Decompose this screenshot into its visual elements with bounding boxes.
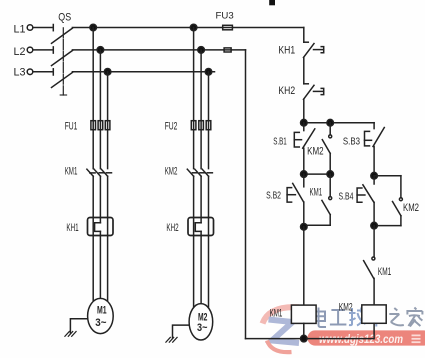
node A2 junction — [327, 119, 334, 126]
svg-text:KM1: KM1 — [270, 308, 283, 320]
node M2-W junction — [205, 69, 212, 76]
watermark char shu — [368, 308, 385, 327]
node A junction — [301, 119, 308, 126]
pushbutton SB2 (NO start M1) — [287, 174, 304, 227]
contactor KM1 main contact pole 3 — [101, 169, 111, 176]
svg-text:FU1: FU1 — [65, 121, 78, 133]
bottom rail — [246, 338, 374, 340]
wire M1 phase U drop — [92, 28, 94, 121]
switch QS pole 1 blade — [52, 28, 73, 43]
svg-text:KM2: KM2 — [403, 202, 419, 214]
ground wire M1 — [70, 319, 87, 333]
terminal L2 — [27, 47, 33, 53]
svg-text:FU3: FU3 — [216, 10, 234, 21]
fuse FU2 pole 1 — [191, 121, 196, 130]
thermal contact KH2 — [304, 84, 324, 100]
svg-text:www.dgjs123.com: www.dgjs123.com — [319, 334, 403, 346]
wire KH1 to motor M1 — [93, 236, 107, 303]
watermark logo blue Z — [269, 320, 300, 344]
node B2 junction — [327, 171, 334, 178]
node C junction — [301, 224, 308, 231]
node M1-W junction — [104, 69, 111, 76]
wire node D rail — [374, 175, 401, 177]
contact KM2 NO (parallel with SB1) — [322, 123, 331, 174]
watermark char ji — [349, 308, 366, 326]
wire KH1 box pass-through — [93, 218, 107, 236]
motor M2 — [189, 304, 213, 340]
svg-text:FU2: FU2 — [165, 121, 178, 133]
svg-text:KH1: KH1 — [278, 45, 295, 57]
terminal L3 — [27, 69, 33, 75]
svg-text:KM1: KM1 — [65, 166, 78, 178]
svg-text:KH2: KH2 — [278, 85, 295, 97]
contactor KM1 main contact pole 1 — [87, 169, 95, 176]
watermark red url bar — [308, 330, 425, 345]
coil KM1 — [291, 305, 316, 323]
switch QS pole 2 blade — [52, 51, 73, 66]
svg-text:QS: QS — [58, 12, 71, 24]
wire L1 to QS — [33, 27, 52, 29]
watermark char dian — [312, 308, 326, 328]
svg-text:KM1: KM1 — [310, 186, 323, 198]
wire M2 phase W drop — [208, 72, 210, 121]
fuse FU1 pole 1 — [91, 121, 96, 130]
contactor KM1 main contact pole 2 — [94, 169, 104, 176]
wire coil KM1 to bottom rail — [303, 323, 305, 338]
fuse FU1 pole 3 — [105, 121, 110, 130]
wire KH2 to node A — [303, 99, 305, 122]
wire KM1 contacts to KH1 — [93, 176, 107, 223]
svg-text:L3: L3 — [14, 67, 26, 79]
contactor KM2 main contact pole 1 — [187, 169, 197, 176]
switch QS pole 3 blade — [52, 73, 73, 88]
pushbutton SB1 (NC stop) — [294, 123, 315, 174]
ground M1 — [65, 332, 76, 337]
svg-text:KM2: KM2 — [165, 166, 178, 178]
svg-text:L2: L2 — [14, 46, 26, 58]
switch QS pole 3 contact — [52, 69, 54, 75]
thermal relay KH2 heater element jog — [195, 223, 201, 232]
ground wire M2 — [173, 325, 190, 338]
wire L2 to QS — [33, 49, 52, 51]
node M1-U junction — [90, 24, 97, 31]
wire L2 rail — [72, 49, 245, 51]
wire L3 to QS — [33, 71, 52, 73]
pushbutton SB4 (NO start M2) — [357, 176, 374, 226]
fuse FU3 pole b — [224, 48, 231, 52]
wire node A rail — [304, 122, 374, 124]
node rail junction — [301, 335, 308, 342]
watermark char jia — [406, 308, 422, 327]
svg-text:M1: M1 — [97, 305, 107, 317]
wire M1 phase V drop — [99, 50, 101, 121]
wire M2 phase U drop — [193, 28, 195, 121]
wire KH2 to motor M2 — [194, 236, 209, 308]
node M2-V junction — [198, 47, 205, 54]
contactor KM2 main contact pole 2 — [195, 169, 205, 176]
thermal relay KH2 heater box — [188, 218, 214, 236]
wire FU1 to KM1 contacts — [93, 130, 107, 169]
watermark char zhi — [389, 308, 404, 325]
thermal relay KH1 heater box — [88, 218, 114, 236]
coil KM2 — [362, 305, 386, 323]
svg-text:S.B1: S.B1 — [273, 136, 287, 147]
wire node B rail — [304, 173, 330, 175]
svg-text:3~: 3~ — [95, 317, 107, 329]
contactor KM2 main contact pole 3 — [202, 169, 212, 176]
watermark pink swoosh — [263, 307, 300, 323]
svg-text:S.B3: S.B3 — [343, 136, 360, 147]
node M2-U junction — [190, 24, 197, 31]
wire control left riser from L2 — [245, 50, 247, 339]
svg-text:L1: L1 — [14, 23, 26, 35]
contact KM1 NO sequence — [364, 226, 375, 305]
wire control right feed from L1 — [303, 28, 305, 43]
fuse FU2 pole 3 — [206, 121, 211, 130]
thermal contact KH1 — [304, 42, 324, 57]
pushbutton SB3 (NC stop M2) — [365, 123, 385, 176]
thermal relay KH1 heater element jog — [95, 223, 101, 232]
wire FU2 to KM2 contacts — [194, 130, 209, 169]
svg-text:KH1: KH1 — [66, 222, 78, 234]
switch QS pole 2 contact — [52, 47, 54, 53]
svg-text:KM1: KM1 — [378, 266, 391, 278]
node B junction — [301, 171, 308, 178]
svg-text:KM2: KM2 — [307, 146, 324, 158]
svg-text:3~: 3~ — [197, 322, 208, 334]
wire node C to coil KM1 — [303, 227, 305, 305]
wire M1 phase W drop — [107, 72, 109, 121]
wire M2 phase V drop — [200, 50, 202, 121]
node D junction — [371, 172, 378, 179]
fuse FU2 pole 2 — [199, 121, 204, 130]
wire KM2 contacts to KH2 — [194, 176, 209, 223]
svg-text:S.B2: S.B2 — [266, 190, 281, 201]
svg-text:KH2: KH2 — [166, 222, 178, 234]
contact KM1 NO latch — [304, 174, 332, 225]
wire L1 rail — [72, 27, 303, 29]
fuse FU1 pole 2 — [98, 121, 103, 130]
wire KH2 box pass-through — [194, 218, 209, 236]
ground M2 — [166, 337, 177, 342]
wire KH1 to KH2 — [303, 58, 305, 84]
wire L3 rail — [72, 71, 214, 73]
switch QS pole 1 contact — [52, 25, 54, 31]
page corner mark — [269, 0, 275, 5]
fuse FU3 pole a — [223, 25, 233, 30]
watermark menu mark — [412, 335, 421, 342]
contact KM2 NO latch — [374, 176, 402, 226]
watermark logo red crescent — [267, 341, 292, 353]
switch QS linkage bar — [62, 28, 64, 95]
svg-text:S.B4: S.B4 — [339, 192, 354, 203]
node E junction — [371, 222, 378, 229]
motor M1 — [88, 298, 114, 333]
watermark char gong — [330, 310, 347, 325]
wire coil KM2 to bottom rail — [373, 323, 375, 338]
terminal L1 — [27, 25, 33, 31]
node M1-V junction — [97, 47, 104, 54]
svg-text:KM2: KM2 — [339, 302, 353, 314]
